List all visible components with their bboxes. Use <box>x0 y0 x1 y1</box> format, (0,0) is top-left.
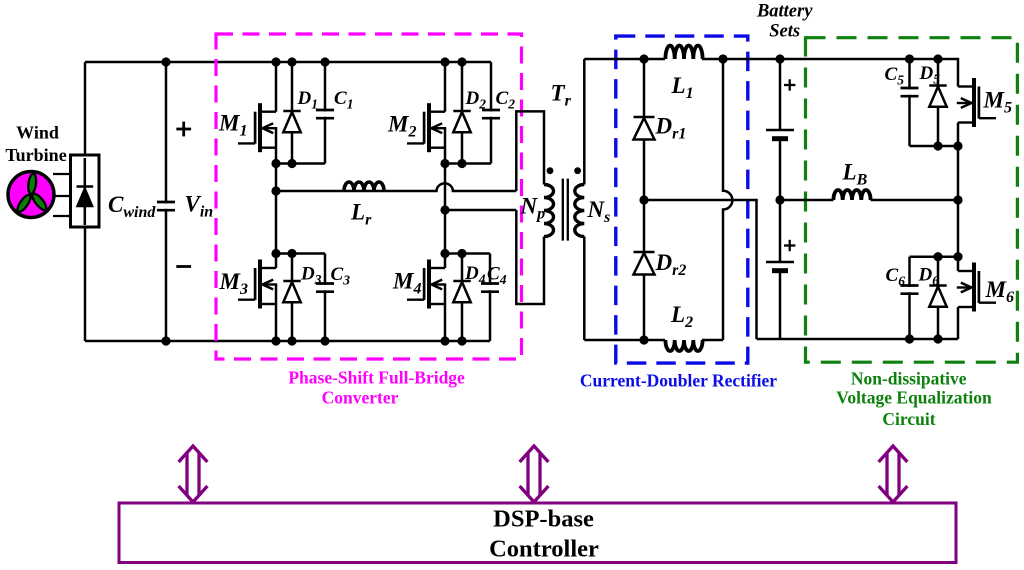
wire primary top path <box>516 111 544 191</box>
svg-text:Current-Doubler Rectifier: Current-Doubler Rectifier <box>580 371 777 391</box>
secondary winding Ns <box>575 185 585 237</box>
svg-text:Turbine: Turbine <box>5 145 66 165</box>
junction M4 source bottom rail <box>440 336 449 345</box>
plus sign battery 1 <box>784 79 795 90</box>
dashed box Phase-Shift Full-Bridge Converter <box>216 34 522 359</box>
wire secondary top <box>583 59 586 185</box>
junction M2 drain top rail <box>440 57 449 66</box>
capacitor C3 <box>316 284 334 292</box>
diode Dr1 <box>634 117 655 140</box>
junction LB right node <box>953 195 962 204</box>
junction D3 cathode node <box>287 249 296 258</box>
wire Lr line with hop <box>276 183 516 191</box>
junction D2 anode node <box>457 159 466 168</box>
wire secondary bottom <box>583 237 586 341</box>
wire D3 <box>291 254 294 342</box>
svg-text:DSP-base: DSP-base <box>493 506 594 533</box>
svg-text:Converter: Converter <box>322 388 399 408</box>
capacitor C5 <box>901 88 919 96</box>
junction C6 bottom rail <box>905 334 914 343</box>
primary winding Np <box>544 185 554 237</box>
junction D1 anode node <box>287 159 296 168</box>
capacitor C2 <box>482 110 500 118</box>
wire top-left rail <box>85 61 491 64</box>
diode D6 <box>929 286 946 307</box>
junction M6 drain node <box>953 252 962 261</box>
junction C_wind top rail <box>161 57 170 66</box>
transformer core <box>563 179 568 241</box>
wire battery string <box>779 59 782 339</box>
junction D4 cathode node <box>457 249 466 258</box>
inductor L1 <box>665 45 702 59</box>
transistor M5 <box>957 78 996 127</box>
wire top-right rail <box>584 59 958 87</box>
battery 1 <box>766 130 794 139</box>
wire C5 <box>908 59 911 146</box>
wire right leg <box>444 62 447 341</box>
wire D4 <box>461 254 464 342</box>
junction M1 source node <box>271 159 280 168</box>
junction C3 bottom rail <box>320 336 329 345</box>
wire D6 <box>937 257 940 339</box>
junction C5 top rail <box>905 54 914 63</box>
junction M2 source node <box>440 159 449 168</box>
svg-text:Voltage Equalization: Voltage Equalization <box>836 388 992 408</box>
junction Dr2 bottom rail <box>639 335 648 344</box>
wire C4 <box>489 254 492 342</box>
diode D1 <box>283 111 300 132</box>
diode D3 <box>283 281 300 302</box>
wire C_wind branch <box>165 62 168 341</box>
diode Dr2 <box>634 252 655 275</box>
capacitor C1 <box>316 110 334 118</box>
junction D6 bottom rail <box>933 334 942 343</box>
junction D2 top rail <box>457 57 466 66</box>
wire left leg <box>275 62 278 341</box>
wire rectifier right vertical with hop <box>723 59 732 340</box>
svg-text:Phase-Shift Full-Bridge: Phase-Shift Full-Bridge <box>288 368 465 388</box>
dashed box Non-dissipative Voltage Equalization Circuit <box>806 38 1018 363</box>
transistor M6 <box>957 263 996 312</box>
wire LB line <box>780 199 958 202</box>
wire B node line <box>445 209 516 212</box>
plus sign Vin <box>176 122 191 137</box>
wire node M6 <box>910 255 959 258</box>
equalization circuit wires <box>780 59 958 339</box>
junction Dr1 top rail <box>639 54 648 63</box>
wire rectifier mid rail <box>644 200 757 339</box>
capacitor C4 <box>481 284 499 292</box>
junction M3 drain node <box>271 249 280 258</box>
transistor M4 <box>407 260 446 309</box>
svg-text:Controller: Controller <box>489 536 599 563</box>
svg-text:Wind: Wind <box>16 122 59 142</box>
junction L1 right top rail <box>718 54 727 63</box>
wire C6 <box>908 257 911 339</box>
svg-text:Sets: Sets <box>769 22 800 42</box>
wire C1 <box>324 62 327 164</box>
wire bottom-right rail <box>757 338 959 341</box>
transistor M3 <box>238 260 277 309</box>
wire D1 <box>291 62 294 164</box>
wire node M2 <box>445 162 491 165</box>
battery 2 <box>766 262 794 271</box>
junction node B <box>440 205 449 214</box>
junction D4 bottom rail <box>457 336 466 345</box>
transformer Tr <box>516 59 584 340</box>
wire turbine connectors <box>53 174 70 216</box>
wire M6 source <box>957 307 960 339</box>
wind turbine <box>8 172 54 218</box>
capacitor C6 <box>901 286 919 294</box>
plus sign battery 2 <box>784 240 795 251</box>
transistor M2 <box>407 103 446 152</box>
wire node M5 <box>910 145 959 148</box>
junction M4 drain node <box>440 249 449 258</box>
svg-text:Non-dissipative: Non-dissipative <box>851 368 967 388</box>
diode D4 <box>453 281 470 302</box>
wire node M3 <box>276 252 325 255</box>
junction D3 bottom rail <box>287 336 296 345</box>
wire D5 <box>937 59 940 146</box>
minus sign Vin <box>176 265 191 268</box>
wire primary bottom path <box>516 210 544 304</box>
wire D2 <box>461 62 464 164</box>
arrow DSP left <box>179 446 208 502</box>
diode D5 <box>929 86 946 107</box>
diode D2 <box>453 111 470 132</box>
dashed box Current-Doubler Rectifier <box>616 36 748 363</box>
junction D5 top rail <box>933 54 942 63</box>
junction M5 source node <box>953 141 962 150</box>
arrow DSP middle <box>520 446 549 502</box>
junction C1 top rail <box>320 57 329 66</box>
svg-text:Battery: Battery <box>756 2 813 22</box>
polarity dot primary <box>547 167 554 174</box>
capacitor C_wind <box>157 202 175 210</box>
inductor Lr <box>344 182 384 191</box>
wire M5 source to LB node to M6 drain <box>957 123 960 272</box>
transistor M1 <box>238 103 277 152</box>
junction D5 anode node <box>933 141 942 150</box>
junction node A Lr tap <box>271 186 280 195</box>
current doubler wires <box>584 59 958 340</box>
DSP-base Controller box <box>119 503 956 563</box>
wire bottom-left rail <box>85 340 490 343</box>
wire Dr branch <box>643 59 646 340</box>
battery sets wires <box>779 59 782 339</box>
inductor LB <box>833 190 870 200</box>
svg-text:Circuit: Circuit <box>882 409 935 429</box>
wire left vertical <box>84 62 87 341</box>
junction battery mid <box>775 195 784 204</box>
full bridge wires <box>276 62 516 341</box>
junction D6 cathode node <box>933 252 942 261</box>
wire node M4 <box>445 252 490 255</box>
wire C2 <box>490 62 493 164</box>
rectifier box with diode <box>71 155 100 227</box>
junction D1 top rail <box>287 57 296 66</box>
polarity dot secondary <box>574 167 581 174</box>
arrow DSP right <box>879 446 908 502</box>
junction M3 source bottom rail <box>271 336 280 345</box>
inductor L2 <box>665 340 702 351</box>
wire node M1 <box>276 162 325 165</box>
junction Dr mid rail <box>639 195 648 204</box>
junction M1 drain top rail <box>271 57 280 66</box>
wire C3 <box>324 254 327 342</box>
junction battery top rail <box>775 54 784 63</box>
junction C_wind bottom rail <box>161 336 170 345</box>
wire bottom mid rail L2 <box>584 339 723 342</box>
